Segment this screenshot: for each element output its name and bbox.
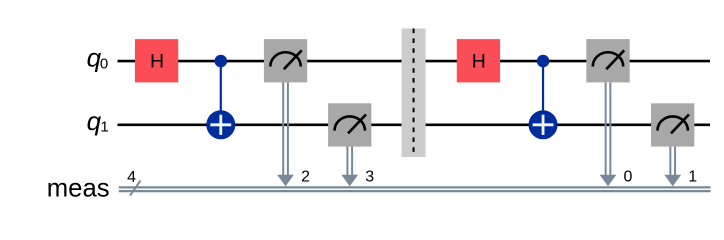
svg-text:4: 4 xyxy=(127,169,136,186)
measure M1 classical double line down xyxy=(670,147,675,176)
CNOT 2 control dot on q0 xyxy=(537,55,550,68)
CNOT 2 target plus on q1 xyxy=(529,110,558,139)
qubit wire q1 xyxy=(118,124,711,127)
svg-text:H: H xyxy=(472,51,486,73)
svg-text:1: 1 xyxy=(688,169,697,186)
svg-text:H: H xyxy=(150,51,164,73)
CNOT 1 target plus on q1 xyxy=(206,110,235,139)
label q1 xyxy=(87,106,109,136)
measure M2 classical double line down xyxy=(283,82,288,176)
measure M0 classical double line down xyxy=(606,82,611,176)
measure gate M2 box xyxy=(264,39,307,82)
CNOT 2 vertical line xyxy=(542,61,544,125)
measure gate M1 box xyxy=(651,103,694,146)
CNOT 1 vertical line xyxy=(220,61,222,125)
svg-text:0: 0 xyxy=(624,169,633,186)
H gate 1 on q0 xyxy=(135,39,178,82)
measure M3 arrowhead xyxy=(341,175,358,187)
CNOT 1 control dot on q0 xyxy=(215,55,228,68)
svg-text:meas: meas xyxy=(47,175,110,203)
H gate 2 on q0 xyxy=(457,39,500,82)
measure gate M3 box xyxy=(328,103,371,146)
barrier shaded band xyxy=(402,29,426,158)
qubit wire q0 xyxy=(118,60,711,63)
classical register width slash xyxy=(130,181,141,196)
measure M0 arrowhead xyxy=(600,175,617,187)
svg-text:q: q xyxy=(87,106,102,136)
measure M3 classical double line down xyxy=(347,147,352,176)
barrier dashed line xyxy=(413,29,415,158)
svg-text:3: 3 xyxy=(365,169,374,186)
classical wire meas (double line) xyxy=(119,187,711,191)
svg-text:0: 0 xyxy=(100,56,108,73)
svg-text:2: 2 xyxy=(301,169,310,186)
label q0 xyxy=(87,43,109,73)
measure M1 arrowhead xyxy=(664,175,681,187)
measure M2 arrowhead xyxy=(277,175,294,187)
measure gate M0 box xyxy=(586,39,629,82)
svg-text:1: 1 xyxy=(100,119,108,136)
